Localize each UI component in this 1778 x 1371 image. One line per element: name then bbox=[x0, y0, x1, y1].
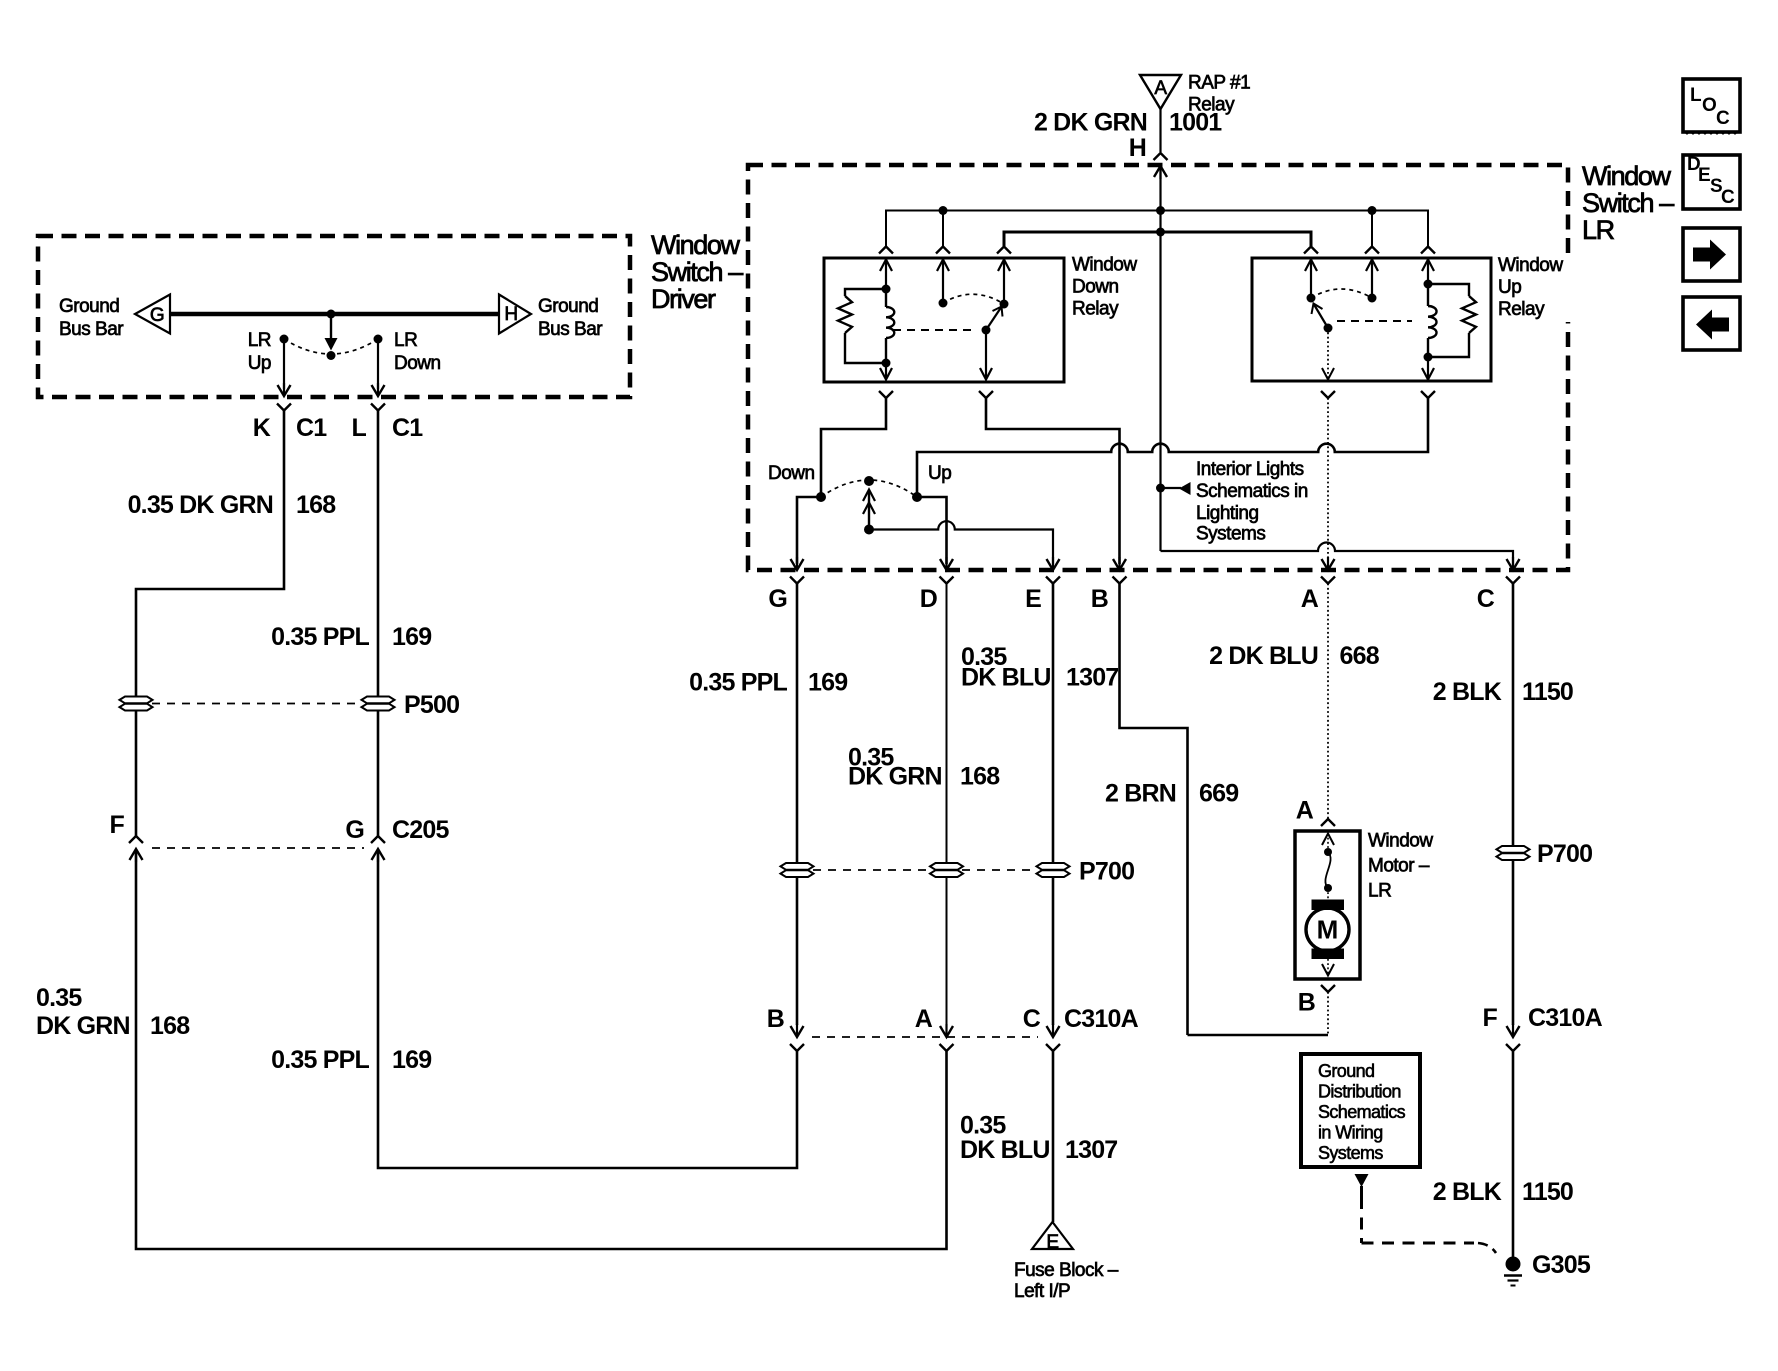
svg-text:Down: Down bbox=[394, 353, 441, 374]
rocker switch LR throw arc bbox=[821, 480, 917, 497]
svg-text:1307: 1307 bbox=[1065, 1136, 1117, 1164]
rocker switch LR: Down contact bbox=[816, 492, 826, 502]
pin G at C205 bbox=[371, 836, 385, 843]
wire: D wire P700 to C310A bbox=[946, 877, 948, 1025]
svg-text:A: A bbox=[1301, 585, 1319, 613]
motor symbol circle bbox=[1306, 908, 1349, 951]
svg-text:Window: Window bbox=[1498, 255, 1563, 276]
wire: pin C to P700 bbox=[1512, 584, 1515, 847]
svg-text:RAP #1: RAP #1 bbox=[1188, 73, 1250, 94]
wire: Down contact to pin G bbox=[797, 497, 821, 564]
svg-text:669: 669 bbox=[1199, 780, 1238, 808]
ground ref pointer triangle bbox=[1355, 1174, 1369, 1187]
svg-text:Up: Up bbox=[1498, 277, 1521, 298]
svg-text:Lighting: Lighting bbox=[1196, 503, 1259, 524]
svg-text:E: E bbox=[1025, 585, 1041, 613]
down relay resistor (parallel) bbox=[845, 289, 886, 296]
rocker switch driver: LR Down contact bbox=[374, 335, 383, 344]
motor bottom lead bbox=[1327, 959, 1329, 976]
pin B of LR switch bbox=[1118, 557, 1120, 570]
svg-text:L: L bbox=[1690, 85, 1702, 106]
svg-text:G: G bbox=[150, 305, 164, 326]
svg-text:Schematics in: Schematics in bbox=[1196, 481, 1308, 502]
svg-text:F: F bbox=[1483, 1004, 1498, 1032]
wire: pin D to P700 bbox=[946, 584, 948, 864]
svg-text:Interior Lights: Interior Lights bbox=[1196, 459, 1304, 480]
svg-text:G: G bbox=[345, 816, 364, 844]
svg-text:2 BLK: 2 BLK bbox=[1433, 1178, 1502, 1206]
svg-text:O: O bbox=[1702, 95, 1717, 116]
Window Switch - LR boundary box bbox=[748, 165, 1568, 570]
svg-text:C1: C1 bbox=[296, 414, 327, 442]
wire: pin B to motor B terminal bbox=[1120, 584, 1188, 1036]
wire: up relay coil to Up contact (hops over A, H, B wires) bbox=[917, 398, 1428, 493]
up relay NO contact bbox=[1371, 259, 1373, 294]
ground distribution reference box bbox=[1301, 1054, 1420, 1167]
up relay armature pin (dotted) bbox=[1327, 328, 1329, 380]
svg-text:168: 168 bbox=[960, 763, 1000, 791]
wire: Up contact to pin D bbox=[917, 497, 947, 564]
wire: pin A to window motor (fine) bbox=[1327, 584, 1329, 820]
svg-text:Systems: Systems bbox=[1196, 523, 1265, 544]
wire: E wire P700 to C310A bbox=[1052, 877, 1055, 1025]
pin D of LR switch bbox=[945, 557, 947, 570]
svg-text:Systems: Systems bbox=[1318, 1143, 1383, 1163]
svg-text:H: H bbox=[504, 304, 517, 325]
ground bus triangle H bbox=[499, 295, 531, 334]
rocker switch LR actuator arrow bbox=[864, 525, 874, 535]
svg-text:DK BLU: DK BLU bbox=[960, 1136, 1050, 1164]
up relay coil branch bbox=[1427, 259, 1429, 284]
P500 dashed link bbox=[152, 703, 362, 705]
power symbol A: RAP #1 Relay feed triangle bbox=[1140, 75, 1181, 109]
svg-text:0.35 PPL: 0.35 PPL bbox=[271, 1046, 369, 1074]
svg-text:2 BRN: 2 BRN bbox=[1105, 780, 1176, 808]
svg-text:B: B bbox=[1298, 989, 1315, 1017]
connector C205 dashed line bbox=[152, 847, 364, 849]
up relay NC contact bbox=[1310, 259, 1312, 294]
svg-text:C205: C205 bbox=[392, 816, 449, 844]
svg-text:Window: Window bbox=[1582, 161, 1672, 191]
svg-text:Fuse Block –: Fuse Block – bbox=[1014, 1260, 1119, 1281]
splice P500 on K wire bbox=[120, 697, 153, 704]
P700 dashed link bbox=[813, 869, 931, 871]
svg-text:Window: Window bbox=[1368, 831, 1433, 852]
wire: LR Down contact to pin L bbox=[377, 339, 379, 389]
wire: G run down, across, up to G-pin wire bbox=[378, 849, 797, 1168]
wire: H feed to pin C with hop over A wire bbox=[1161, 543, 1514, 571]
pin G of LR switch bbox=[796, 557, 798, 570]
svg-text:C: C bbox=[1721, 187, 1735, 208]
splice P700 on G wire bbox=[781, 863, 814, 870]
svg-text:LR: LR bbox=[394, 330, 417, 351]
previous page button bbox=[1683, 297, 1740, 350]
power symbol E: Fuse Block - Left I/P triangle bbox=[1032, 1222, 1073, 1249]
pin C of LR switch bbox=[1512, 557, 1514, 570]
next page button bbox=[1683, 228, 1740, 281]
relay K1: Window Down Relay box bbox=[824, 258, 1064, 382]
rocker switch LR: Up contact bbox=[912, 492, 922, 502]
svg-text:1150: 1150 bbox=[1522, 1178, 1573, 1206]
splice P700 on C wire bbox=[1497, 846, 1530, 853]
down relay contact throw arc bbox=[943, 294, 1004, 304]
pin E of LR switch bbox=[1052, 557, 1054, 570]
ground bus triangle G bbox=[135, 295, 170, 334]
wire: rocker common to pin E (hop over D wire) bbox=[869, 521, 1053, 564]
svg-text:Down: Down bbox=[1072, 277, 1119, 298]
svg-text:2 DK GRN: 2 DK GRN bbox=[1034, 109, 1147, 137]
svg-text:Ground: Ground bbox=[59, 296, 119, 317]
svg-text:Window: Window bbox=[1072, 255, 1137, 276]
svg-text:169: 169 bbox=[392, 623, 431, 651]
svg-text:A: A bbox=[1296, 797, 1314, 825]
splice P500 on L wire bbox=[362, 697, 395, 704]
wire: motor B pin to BRN wire bbox=[1327, 992, 1329, 1035]
svg-text:0.35 DK GRN: 0.35 DK GRN bbox=[128, 491, 273, 519]
svg-text:Window: Window bbox=[651, 230, 741, 260]
svg-text:Driver: Driver bbox=[651, 284, 716, 314]
svg-text:C310A: C310A bbox=[1528, 1004, 1603, 1032]
svg-text:LR: LR bbox=[1582, 215, 1615, 245]
down relay armature bbox=[982, 326, 991, 335]
motor armature block bottom bbox=[1312, 949, 1345, 960]
svg-text:Bus Bar: Bus Bar bbox=[59, 319, 124, 340]
splice P700 on E wire bbox=[1037, 863, 1070, 870]
wire: H feed vertical inside LR box bbox=[1159, 165, 1161, 551]
svg-text:Distribution: Distribution bbox=[1318, 1082, 1401, 1102]
svg-text:G: G bbox=[768, 585, 787, 613]
svg-text:Ground: Ground bbox=[1318, 1061, 1374, 1081]
svg-text:668: 668 bbox=[1340, 642, 1380, 670]
wire: C310A to G305 bbox=[1512, 1052, 1515, 1259]
rocker switch driver: LR Up contact bbox=[280, 335, 289, 344]
svg-text:E: E bbox=[1698, 165, 1711, 186]
wire: up relay armature to pin A (dotted) bbox=[1327, 398, 1329, 570]
interior lights tap triangle bbox=[1161, 487, 1182, 489]
relay K2: Window Up Relay box bbox=[1252, 258, 1491, 381]
svg-text:Switch –: Switch – bbox=[651, 257, 743, 287]
svg-text:1150: 1150 bbox=[1522, 678, 1573, 706]
ground G305 bbox=[1506, 1257, 1521, 1272]
svg-text:169: 169 bbox=[392, 1046, 431, 1074]
wire: F run down, across bottom, up to D wire bbox=[136, 849, 947, 1249]
svg-text:0.35 PPL: 0.35 PPL bbox=[271, 623, 369, 651]
svg-text:P700: P700 bbox=[1079, 858, 1134, 886]
wire: RAP triangle to Window Switch LR box bbox=[1159, 109, 1161, 152]
svg-text:Down: Down bbox=[768, 463, 815, 484]
svg-text:C: C bbox=[1023, 1005, 1041, 1033]
driver ground bus bar wire bbox=[170, 312, 499, 317]
svg-text:H: H bbox=[1129, 134, 1146, 162]
LOC button bbox=[1683, 79, 1740, 132]
pin F at C205 bbox=[129, 836, 143, 843]
svg-text:M: M bbox=[1317, 915, 1339, 945]
wire: down relay coil to Down contact bbox=[821, 398, 886, 493]
svg-text:Bus Bar: Bus Bar bbox=[538, 319, 603, 340]
down relay NO contact bbox=[942, 259, 944, 299]
svg-text:DK BLU: DK BLU bbox=[961, 664, 1051, 692]
svg-text:DK GRN: DK GRN bbox=[848, 763, 942, 791]
svg-text:169: 169 bbox=[808, 669, 847, 697]
wire: LR Up contact to pin K bbox=[283, 339, 285, 389]
down relay armature pin bbox=[985, 330, 987, 380]
svg-text:C310A: C310A bbox=[1064, 1005, 1139, 1033]
wire: pin L down to P500 bbox=[377, 411, 380, 697]
svg-text:A: A bbox=[915, 1005, 933, 1033]
pin F at C310A right bbox=[1512, 1024, 1514, 1037]
node: bus junction dots bbox=[1156, 206, 1165, 215]
svg-text:Motor –: Motor – bbox=[1368, 856, 1430, 877]
wire: pin G to P700 bbox=[796, 584, 799, 864]
svg-text:Left I/P: Left I/P bbox=[1014, 1281, 1070, 1302]
svg-text:Relay: Relay bbox=[1498, 299, 1545, 320]
motor armature block top bbox=[1312, 900, 1345, 911]
svg-text:D: D bbox=[920, 585, 937, 613]
svg-text:K: K bbox=[253, 414, 271, 442]
svg-text:Relay: Relay bbox=[1072, 299, 1119, 320]
up relay resistor (parallel) bbox=[1428, 284, 1469, 296]
pin B at C310A bbox=[796, 1024, 798, 1037]
wire: C310A to fuse block bbox=[1052, 1052, 1055, 1223]
connector C310A dashed line bbox=[812, 1036, 1038, 1038]
svg-text:0.35: 0.35 bbox=[36, 984, 82, 1012]
svg-text:Schematics: Schematics bbox=[1318, 1102, 1406, 1122]
svg-text:Switch –: Switch – bbox=[1582, 188, 1674, 218]
svg-text:E: E bbox=[1046, 1232, 1058, 1253]
pin A of LR switch bbox=[1327, 557, 1329, 570]
svg-text:168: 168 bbox=[296, 491, 336, 519]
svg-text:in Wiring: in Wiring bbox=[1318, 1123, 1383, 1143]
wire: BRN to motor bottom bbox=[1188, 1034, 1329, 1037]
svg-text:B: B bbox=[1091, 585, 1108, 613]
rocker switch LR: center pivot bbox=[864, 476, 874, 486]
wire: relay supply bus 2 bbox=[1004, 232, 1311, 246]
svg-text:A: A bbox=[1154, 78, 1167, 99]
svg-text:Up: Up bbox=[928, 463, 951, 484]
svg-text:C1: C1 bbox=[392, 414, 423, 442]
splice P700 on D wire bbox=[930, 863, 963, 870]
wire: L wire P500 to C205 bbox=[377, 711, 380, 836]
svg-text:1307: 1307 bbox=[1066, 664, 1118, 692]
rocker switch driver: center pivot bbox=[327, 351, 336, 360]
svg-text:LR: LR bbox=[248, 330, 271, 351]
up relay contact throw arc bbox=[1311, 289, 1372, 298]
pin C at C310A bbox=[1052, 1024, 1054, 1037]
up relay actuator link bbox=[1337, 320, 1412, 322]
down relay coil branch bbox=[885, 259, 887, 289]
dashed ground reference link bbox=[1360, 1197, 1363, 1243]
down relay NC contact bbox=[1003, 259, 1005, 300]
wire: relay supply bus 1 bbox=[886, 211, 1428, 247]
Window Switch - Driver boundary box bbox=[38, 236, 630, 397]
svg-text:C: C bbox=[1477, 585, 1495, 613]
DESC button bbox=[1683, 155, 1740, 209]
up relay armature bbox=[1324, 324, 1333, 333]
wire: pin K down-left to P500 area bbox=[136, 411, 284, 697]
svg-text:DK GRN: DK GRN bbox=[36, 1012, 130, 1040]
driver rocker actuator arrow bbox=[330, 314, 332, 341]
svg-text:168: 168 bbox=[150, 1012, 190, 1040]
motor brush lead bbox=[1322, 834, 1334, 846]
svg-text:L: L bbox=[352, 414, 367, 442]
rocker switch driver throw arc bbox=[284, 339, 378, 354]
svg-text:Ground: Ground bbox=[538, 296, 598, 317]
down relay actuator link bbox=[893, 329, 977, 331]
svg-text:1001: 1001 bbox=[1169, 109, 1222, 137]
svg-text:P500: P500 bbox=[404, 691, 459, 719]
svg-text:2 DK BLU: 2 DK BLU bbox=[1209, 642, 1318, 670]
wire: G wire P700 to C310A bbox=[796, 877, 799, 1025]
svg-text:C: C bbox=[1716, 108, 1730, 129]
wire: down relay armature to pin B bbox=[986, 398, 1120, 564]
pin A at C310A bbox=[945, 1024, 947, 1037]
wire: P700 to C310A bbox=[1512, 860, 1515, 1025]
svg-text:B: B bbox=[767, 1005, 784, 1033]
svg-text:LR: LR bbox=[1368, 881, 1391, 902]
svg-text:0.35 PPL: 0.35 PPL bbox=[689, 669, 787, 697]
svg-text:2 BLK: 2 BLK bbox=[1433, 678, 1502, 706]
wire: K wire P500 to C205 bbox=[135, 711, 138, 836]
svg-text:G305: G305 bbox=[1532, 1251, 1591, 1279]
svg-text:F: F bbox=[110, 811, 125, 839]
svg-text:P700: P700 bbox=[1537, 840, 1592, 868]
wire: pin E to P700 bbox=[1052, 584, 1055, 864]
svg-text:Up: Up bbox=[248, 353, 271, 374]
